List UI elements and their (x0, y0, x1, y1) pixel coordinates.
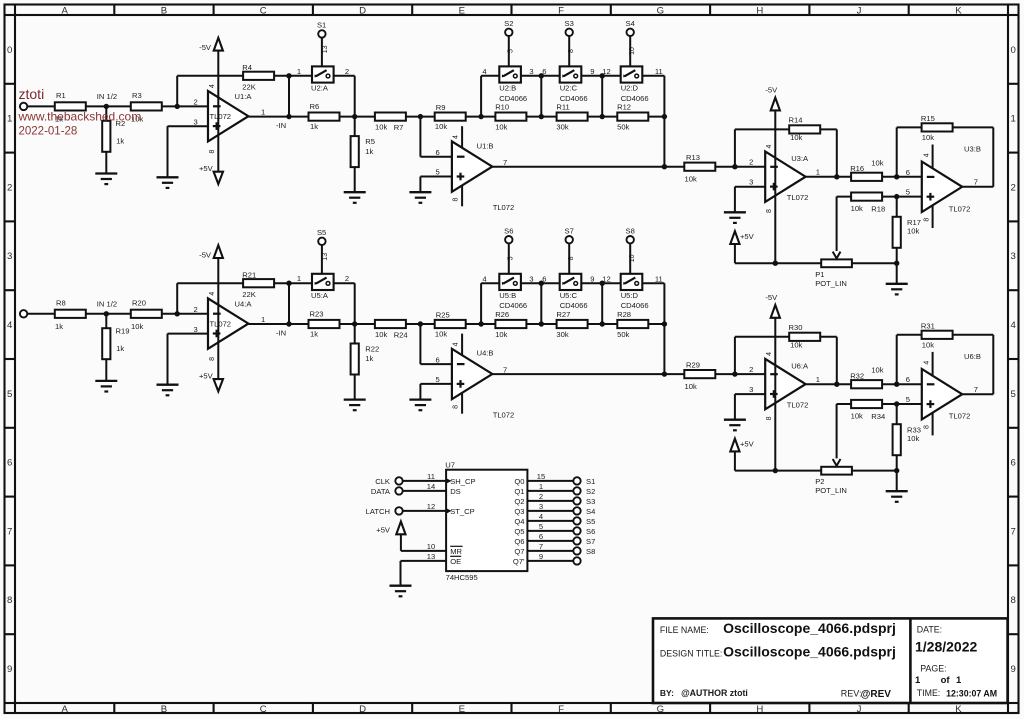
svg-text:1: 1 (915, 675, 921, 686)
svg-text:A: A (61, 6, 68, 17)
svg-text:4: 4 (209, 292, 216, 296)
svg-text:3: 3 (539, 502, 543, 511)
svg-text:R32: R32 (850, 371, 864, 380)
svg-text:3: 3 (193, 325, 197, 334)
svg-text:S1: S1 (317, 20, 326, 29)
svg-text:9: 9 (1011, 664, 1016, 675)
svg-text:5: 5 (906, 395, 910, 404)
svg-text:Q1: Q1 (514, 487, 524, 496)
svg-text:8: 8 (1011, 595, 1016, 606)
svg-text:8: 8 (923, 218, 930, 222)
svg-text:R14: R14 (789, 116, 803, 125)
svg-text:R18: R18 (871, 205, 885, 214)
svg-text:P2: P2 (815, 477, 824, 486)
svg-text:ztoti: ztoti (19, 86, 45, 102)
svg-text:C: C (260, 704, 267, 715)
svg-text:DS: DS (450, 487, 461, 496)
svg-text:BY:: BY: (660, 688, 674, 698)
svg-text:+5V: +5V (199, 164, 214, 173)
svg-text:Q0: Q0 (514, 477, 524, 486)
svg-text:TIME:: TIME: (917, 688, 940, 698)
svg-text:8: 8 (453, 197, 460, 201)
svg-text:www.thebackshed.com: www.thebackshed.com (18, 109, 142, 123)
svg-text:CD4066: CD4066 (499, 301, 527, 310)
svg-text:Q4: Q4 (514, 517, 524, 526)
svg-text:5: 5 (435, 168, 439, 177)
svg-text:G: G (657, 6, 664, 17)
svg-text:8: 8 (209, 357, 216, 361)
svg-text:4: 4 (482, 67, 486, 76)
svg-text:TL072: TL072 (210, 112, 232, 121)
svg-text:4: 4 (482, 274, 486, 283)
svg-text:4: 4 (453, 135, 460, 139)
svg-text:4: 4 (453, 342, 460, 346)
svg-text:-IN: -IN (276, 328, 286, 337)
svg-text:S5: S5 (317, 228, 326, 237)
svg-text:ST_CP: ST_CP (450, 507, 474, 516)
svg-text:22K: 22K (242, 290, 256, 299)
svg-text:R5: R5 (365, 137, 375, 146)
svg-text:R31: R31 (921, 321, 935, 330)
svg-text:1: 1 (816, 167, 820, 176)
svg-text:1k: 1k (55, 322, 63, 331)
svg-text:8: 8 (453, 405, 460, 409)
svg-text:3: 3 (749, 178, 753, 187)
svg-text:S3: S3 (565, 19, 574, 28)
svg-text:50k: 50k (617, 330, 629, 339)
svg-text:U7: U7 (445, 461, 455, 470)
svg-text:5: 5 (435, 375, 439, 384)
svg-text:-5V: -5V (765, 293, 778, 302)
svg-text:-IN: -IN (276, 121, 286, 130)
svg-text:10k: 10k (375, 122, 387, 131)
svg-text:50k: 50k (617, 123, 629, 132)
svg-text:+5V: +5V (740, 439, 755, 448)
svg-text:K: K (955, 6, 962, 17)
svg-text:U2:A: U2:A (311, 84, 329, 93)
svg-text:10k: 10k (851, 204, 863, 213)
svg-text:15: 15 (537, 472, 545, 481)
svg-text:U2:B: U2:B (499, 84, 516, 93)
svg-text:U4:B: U4:B (477, 349, 494, 358)
svg-text:R27: R27 (556, 310, 570, 319)
svg-text:U3:B: U3:B (964, 145, 981, 154)
svg-text:10k: 10k (790, 133, 802, 142)
svg-text:10k: 10k (495, 123, 507, 132)
svg-text:13: 13 (427, 552, 435, 561)
svg-text:1: 1 (261, 315, 265, 324)
svg-text:R25: R25 (436, 310, 450, 319)
svg-text:Q7': Q7' (513, 557, 525, 566)
svg-text:TL072: TL072 (949, 412, 971, 421)
svg-text:CLK: CLK (375, 477, 390, 486)
svg-text:CD4066: CD4066 (560, 301, 588, 310)
svg-text:S8: S8 (626, 226, 635, 235)
svg-text:11: 11 (655, 67, 663, 76)
svg-text:1k: 1k (116, 137, 124, 146)
svg-text:10k: 10k (871, 366, 883, 375)
svg-text:R10: R10 (495, 103, 509, 112)
svg-text:10k: 10k (790, 340, 802, 349)
svg-text:S4: S4 (586, 507, 595, 516)
svg-text:12: 12 (427, 502, 435, 511)
svg-text:+5V: +5V (376, 525, 391, 534)
svg-text:1: 1 (956, 675, 962, 686)
svg-text:12:30:07 AM: 12:30:07 AM (946, 688, 997, 698)
svg-text:U3:A: U3:A (791, 154, 809, 163)
svg-text:R23: R23 (310, 309, 324, 318)
svg-text:+5V: +5V (740, 232, 755, 241)
svg-text:IN 1/2: IN 1/2 (97, 299, 117, 308)
svg-text:Q7: Q7 (514, 547, 524, 556)
svg-text:DESIGN TITLE:: DESIGN TITLE: (660, 648, 722, 658)
svg-text:R24: R24 (394, 330, 408, 339)
svg-text:U6:B: U6:B (964, 352, 981, 361)
svg-text:5: 5 (539, 522, 543, 531)
svg-text:FILE NAME:: FILE NAME: (660, 625, 709, 635)
svg-text:R26: R26 (495, 310, 509, 319)
svg-text:1k: 1k (365, 354, 373, 363)
svg-text:S2: S2 (586, 487, 595, 496)
svg-text:6: 6 (906, 375, 910, 384)
svg-text:2: 2 (345, 274, 349, 283)
svg-text:10k: 10k (435, 122, 447, 131)
svg-text:J: J (857, 704, 862, 715)
svg-text:4: 4 (923, 153, 930, 157)
svg-text:1k: 1k (310, 329, 318, 338)
svg-text:S6: S6 (586, 527, 595, 536)
svg-text:9: 9 (7, 664, 12, 675)
svg-text:8: 8 (568, 49, 575, 53)
svg-text:4: 4 (209, 84, 216, 88)
svg-text:4: 4 (7, 320, 13, 331)
svg-text:6: 6 (539, 532, 543, 541)
svg-text:R6: R6 (310, 102, 320, 111)
svg-text:CD4066: CD4066 (621, 301, 649, 310)
svg-text:U1:B: U1:B (477, 141, 494, 150)
svg-text:6: 6 (435, 355, 439, 364)
svg-text:7: 7 (974, 385, 978, 394)
svg-text:1: 1 (297, 67, 301, 76)
svg-text:9: 9 (590, 67, 594, 76)
svg-text:U6:A: U6:A (791, 362, 809, 371)
svg-text:U1:A: U1:A (235, 92, 253, 101)
svg-text:H: H (756, 6, 763, 17)
svg-text:2: 2 (193, 97, 197, 106)
svg-text:Oscilloscope_4066.pdsprj: Oscilloscope_4066.pdsprj (723, 644, 896, 660)
svg-text:8: 8 (209, 149, 216, 153)
svg-text:R3: R3 (132, 91, 142, 100)
svg-text:4: 4 (766, 352, 773, 356)
svg-text:R29: R29 (686, 360, 700, 369)
svg-text:U2:C: U2:C (560, 84, 578, 93)
svg-text:6: 6 (1011, 458, 1016, 469)
svg-text:G: G (657, 704, 664, 715)
svg-text:10k: 10k (922, 133, 934, 142)
svg-text:10k: 10k (495, 330, 507, 339)
svg-text:+5V: +5V (199, 372, 214, 381)
svg-text:9: 9 (539, 552, 543, 561)
svg-text:R15: R15 (921, 114, 935, 123)
svg-text:3: 3 (1011, 251, 1016, 262)
svg-text:TL072: TL072 (949, 204, 971, 213)
svg-text:10k: 10k (375, 330, 387, 339)
svg-text:10: 10 (629, 47, 636, 55)
svg-text:2: 2 (749, 158, 753, 167)
svg-text:LATCH: LATCH (366, 507, 390, 516)
svg-text:1/28/2022: 1/28/2022 (915, 639, 977, 655)
svg-text:R34: R34 (871, 412, 885, 421)
svg-text:1: 1 (1011, 114, 1016, 125)
svg-text:10k: 10k (685, 382, 697, 391)
svg-text:Q3: Q3 (514, 507, 524, 516)
svg-text:R16: R16 (850, 164, 864, 173)
svg-text:R4: R4 (242, 63, 252, 72)
svg-text:of: of (941, 675, 951, 686)
svg-text:6: 6 (435, 148, 439, 157)
svg-text:-5V: -5V (765, 86, 778, 95)
svg-text:B: B (161, 704, 167, 715)
svg-text:R20: R20 (132, 298, 146, 307)
svg-text:7: 7 (1011, 526, 1016, 537)
svg-text:R22: R22 (365, 345, 379, 354)
svg-text:TL072: TL072 (787, 193, 809, 202)
svg-text:10k: 10k (907, 227, 919, 236)
svg-text:SH_CP: SH_CP (450, 477, 475, 486)
svg-text:R30: R30 (789, 323, 803, 332)
svg-text:J: J (857, 6, 862, 17)
svg-text:F: F (558, 6, 564, 17)
svg-text:S7: S7 (565, 226, 574, 235)
svg-text:R8: R8 (56, 298, 66, 307)
svg-text:8: 8 (766, 209, 773, 213)
svg-text:11: 11 (427, 472, 435, 481)
svg-text:7: 7 (974, 178, 978, 187)
svg-text:4: 4 (539, 512, 543, 521)
svg-text:10k: 10k (851, 411, 863, 420)
svg-text:D: D (359, 704, 366, 715)
svg-text:DATA: DATA (371, 487, 391, 496)
svg-text:R7: R7 (394, 123, 404, 132)
svg-text:Oscilloscope_4066.pdsprj: Oscilloscope_4066.pdsprj (723, 620, 896, 636)
svg-text:E: E (459, 704, 465, 715)
svg-text:R1: R1 (56, 91, 66, 100)
svg-text:CD4066: CD4066 (621, 94, 649, 103)
svg-text:DATE:: DATE: (917, 625, 942, 635)
svg-text:@AUTHOR ztoti: @AUTHOR ztoti (681, 688, 748, 698)
svg-text:1: 1 (816, 375, 820, 384)
svg-text:K: K (955, 704, 962, 715)
svg-text:1k: 1k (116, 344, 124, 353)
svg-text:6: 6 (906, 168, 910, 177)
svg-text:30k: 30k (556, 123, 568, 132)
svg-text:H: H (756, 704, 763, 715)
svg-text:U4:A: U4:A (235, 299, 253, 308)
svg-text:CD4066: CD4066 (499, 94, 527, 103)
svg-text:A: A (61, 704, 68, 715)
svg-text:6: 6 (7, 458, 12, 469)
svg-text:R13: R13 (686, 153, 700, 162)
svg-text:S1: S1 (586, 477, 595, 486)
svg-text:2: 2 (345, 67, 349, 76)
svg-text:2: 2 (539, 492, 543, 501)
svg-text:9: 9 (590, 274, 594, 283)
svg-text:30k: 30k (556, 330, 568, 339)
svg-text:R12: R12 (617, 103, 631, 112)
svg-text:TL072: TL072 (493, 411, 515, 420)
svg-text:8: 8 (7, 595, 12, 606)
svg-text:@REV: @REV (861, 689, 892, 700)
svg-text:1: 1 (261, 107, 265, 116)
svg-text:2022-01-28: 2022-01-28 (19, 125, 78, 137)
svg-text:11: 11 (655, 274, 663, 283)
svg-text:22K: 22K (242, 82, 256, 91)
svg-text:5: 5 (1011, 389, 1016, 400)
svg-text:2: 2 (749, 365, 753, 374)
svg-text:1k: 1k (365, 147, 373, 156)
svg-text:R9: R9 (436, 103, 446, 112)
svg-text:S7: S7 (586, 537, 595, 546)
svg-text:PAGE:: PAGE: (920, 664, 946, 674)
svg-text:4: 4 (923, 361, 930, 365)
svg-text:74HC595: 74HC595 (446, 573, 478, 582)
svg-text:D: D (359, 6, 366, 17)
svg-text:Q5: Q5 (514, 527, 524, 536)
svg-text:4: 4 (1011, 320, 1017, 331)
svg-text:-5V: -5V (199, 43, 212, 52)
svg-text:7: 7 (7, 526, 12, 537)
svg-text:F: F (558, 704, 564, 715)
svg-text:10k: 10k (907, 434, 919, 443)
svg-text:S5: S5 (586, 517, 595, 526)
svg-text:10k: 10k (922, 340, 934, 349)
svg-text:2: 2 (1011, 182, 1016, 193)
svg-text:C: C (260, 6, 267, 17)
svg-text:TL072: TL072 (210, 319, 232, 328)
svg-text:1: 1 (297, 274, 301, 283)
svg-text:7: 7 (503, 365, 507, 374)
svg-text:S4: S4 (626, 19, 635, 28)
svg-text:3: 3 (529, 67, 533, 76)
svg-text:U5:B: U5:B (499, 291, 516, 300)
svg-text:U2:D: U2:D (621, 84, 639, 93)
svg-text:IN 1/2: IN 1/2 (97, 92, 117, 101)
svg-text:POT_LIN: POT_LIN (815, 279, 847, 288)
svg-text:3: 3 (749, 385, 753, 394)
svg-text:5: 5 (906, 187, 910, 196)
svg-text:0: 0 (1011, 45, 1016, 56)
svg-text:10k: 10k (435, 329, 447, 338)
svg-text:R11: R11 (556, 103, 569, 112)
svg-text:1: 1 (539, 482, 543, 491)
svg-text:U5:A: U5:A (311, 291, 329, 300)
svg-text:-5V: -5V (199, 251, 212, 260)
svg-text:CD4066: CD4066 (560, 94, 588, 103)
svg-text:R19: R19 (116, 326, 130, 335)
svg-text:8: 8 (766, 416, 773, 420)
svg-text:10: 10 (427, 542, 435, 551)
svg-text:S2: S2 (504, 19, 513, 28)
svg-text:10k: 10k (685, 175, 697, 184)
svg-text:10: 10 (629, 254, 636, 262)
svg-text:E: E (459, 6, 465, 17)
svg-text:1k: 1k (310, 122, 318, 131)
svg-text:3: 3 (193, 117, 197, 126)
svg-text:OE: OE (450, 557, 461, 566)
svg-text:8: 8 (923, 425, 930, 429)
svg-text:1: 1 (7, 114, 12, 125)
svg-text:13: 13 (322, 253, 329, 261)
svg-text:7: 7 (503, 158, 507, 167)
svg-text:2: 2 (193, 305, 197, 314)
svg-text:Q2: Q2 (514, 497, 524, 506)
svg-text:5: 5 (508, 49, 515, 53)
svg-text:13: 13 (322, 45, 329, 53)
svg-text:S3: S3 (586, 497, 595, 506)
svg-text:10k: 10k (131, 322, 143, 331)
svg-text:Q6: Q6 (514, 537, 524, 546)
svg-text:REV:: REV: (841, 689, 862, 699)
svg-text:TL072: TL072 (493, 203, 515, 212)
svg-text:R28: R28 (617, 310, 631, 319)
svg-text:3: 3 (7, 251, 12, 262)
svg-text:B: B (161, 6, 167, 17)
svg-text:4: 4 (766, 144, 773, 148)
svg-text:POT_LIN: POT_LIN (815, 486, 847, 495)
svg-text:S8: S8 (586, 547, 595, 556)
svg-text:0: 0 (7, 45, 12, 56)
svg-text:R21: R21 (242, 270, 256, 279)
svg-text:2: 2 (7, 182, 12, 193)
svg-text:14: 14 (427, 482, 435, 491)
svg-text:S6: S6 (504, 226, 513, 235)
svg-text:MR: MR (450, 547, 462, 556)
svg-text:10k: 10k (871, 158, 883, 167)
svg-text:5: 5 (508, 256, 515, 260)
svg-text:U5:C: U5:C (560, 291, 578, 300)
svg-text:TL072: TL072 (787, 400, 809, 409)
svg-text:3: 3 (529, 274, 533, 283)
svg-text:5: 5 (7, 389, 12, 400)
svg-text:8: 8 (568, 256, 575, 260)
svg-text:P1: P1 (815, 270, 824, 279)
svg-text:U5:D: U5:D (621, 291, 639, 300)
svg-text:7: 7 (539, 542, 543, 551)
